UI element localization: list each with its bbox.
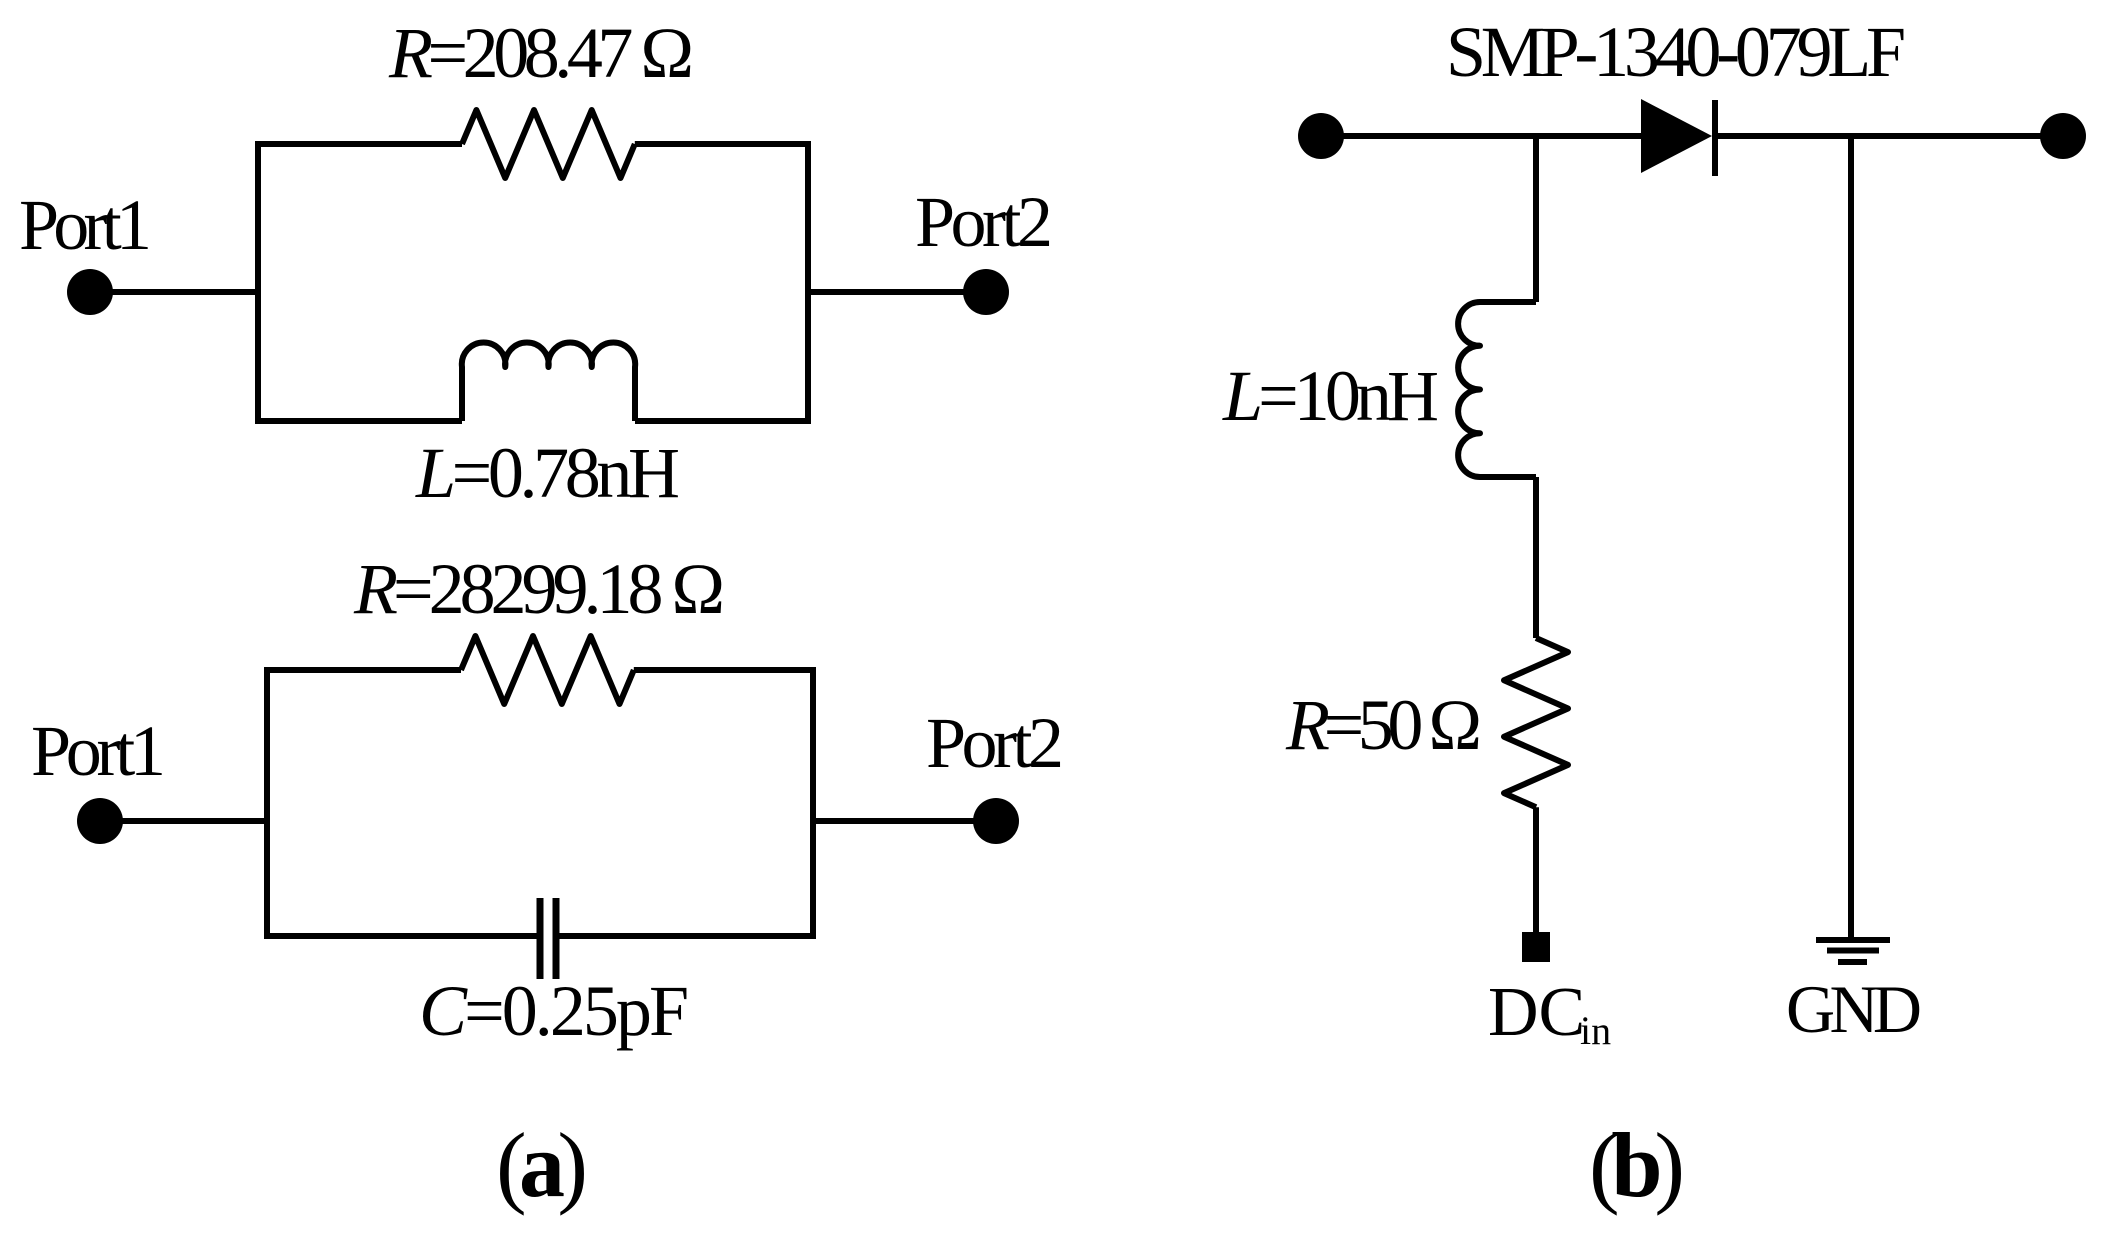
wire right edge of loop (a-bottom) [810,667,816,939]
svg-text:(a): (a) [496,1114,588,1216]
node Port1 dot (a-bottom) [77,798,123,844]
wire Port2 lead (a-top) [808,289,986,295]
ground symbol bar 2 (b) [1827,948,1879,954]
capacitor C=0.25pF right plate (a-bottom) [553,898,560,979]
node Port2 dot (a-top) [963,269,1009,315]
wire top edge left segment (a-top) [255,141,462,147]
node output terminal dot (b-right) [2040,113,2086,159]
wire right branch down to ground (b) [1848,136,1854,937]
svg-text:(b): (b) [1589,1114,1685,1216]
svg-text:C=0.25pF: C=0.25pF [419,971,689,1051]
resistor R=50 ohm zigzag (b) [1504,638,1568,807]
svg-text:R=28299.18 Ω: R=28299.18 Ω [353,549,725,629]
svg-text:SMP-1340-079LF: SMP-1340-079LF [1446,12,1906,92]
ground symbol bar 1 (b) [1816,937,1890,943]
inductor L=0.78nH coil (a-top) [462,342,635,421]
svg-text:L=0.78nH: L=0.78nH [415,433,680,513]
node Port1 dot (a-top) [67,269,113,315]
terminal DCin square pad (b) [1522,932,1550,962]
wire top edge right segment (a-top) [635,141,811,147]
wire between inductor and resistor (b) [1533,477,1539,638]
wire Port2 lead (a-bottom) [813,818,996,824]
wire bottom edge left segment (a-top) [255,418,462,424]
resistor R=28299.18 ohm zigzag (a-bottom) [461,636,634,704]
svg-text:Port2: Port2 [915,182,1053,262]
svg-text:Port1: Port1 [19,185,152,265]
wire Port1 lead (a-top) [90,289,258,295]
wire top edge left segment (a-bottom) [264,667,461,673]
capacitor C=0.25pF left plate (a-bottom) [537,898,544,979]
wire top edge right segment (a-bottom) [634,667,816,673]
inductor L=10nH coil (b) [1458,302,1536,477]
svg-text:R=208.47 Ω: R=208.47 Ω [388,13,694,93]
node input terminal dot (b-left) [1298,113,1344,159]
node Port2 dot (a-bottom) [973,798,1019,844]
diode SMP-1340-079LF anode triangle [1641,99,1712,173]
wire right edge of loop (a-top) [805,141,811,424]
wire left edge of loop (a-bottom) [264,667,270,939]
wire Port1 lead (a-bottom) [100,818,267,824]
svg-text:R=50 Ω: R=50 Ω [1285,685,1482,765]
svg-text:GND: GND [1786,971,1922,1047]
svg-text:Port1: Port1 [31,711,166,791]
svg-text:DC: DC [1488,974,1585,1051]
wire resistor to DC terminal (b) [1533,807,1539,932]
diode SMP-1340-079LF cathode bar [1712,100,1718,176]
wire bottom edge right segment (a-top) [635,418,811,424]
resistor R=208.47 ohm zigzag (a-top) [462,110,635,178]
wire top rail right segment (b) [1712,133,2063,139]
ground symbol bar 3 (b) [1838,959,1867,965]
wire bottom edge left segment (a-bottom) [264,933,537,939]
wire left edge of loop (a-top) [255,141,261,424]
svg-text:L=10nH: L=10nH [1222,356,1439,436]
svg-text:in: in [1580,1008,1611,1053]
wire bottom edge right segment (a-bottom) [560,933,817,939]
wire left branch down to inductor (b) [1533,136,1539,302]
wire top rail left segment (b) [1321,133,1641,139]
svg-text:Port2: Port2 [926,703,1064,783]
